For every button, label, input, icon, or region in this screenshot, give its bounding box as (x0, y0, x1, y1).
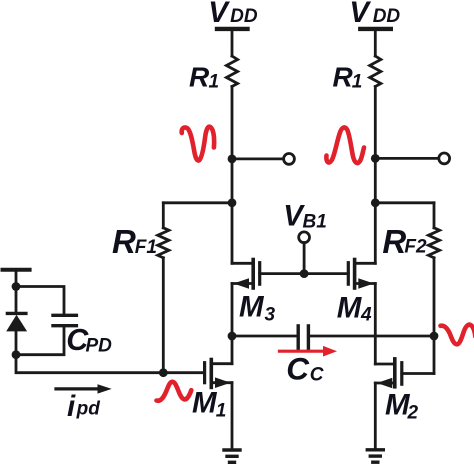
transistor M3 (232, 260, 260, 289)
wire CPD top branch (16, 287, 64, 316)
label M4 (337, 291, 372, 325)
photodiode D (6, 313, 27, 331)
capacitor CPD (53, 315, 76, 325)
wire gate rail M3-M4 (260, 272, 349, 275)
svg-text:R: R (382, 223, 406, 260)
VDD supply bar right (360, 27, 391, 31)
wire RF1 tap down to M3 drain (231, 203, 234, 263)
wire VB1 to gate rail (303, 243, 306, 274)
svg-text:F2: F2 (404, 237, 427, 258)
red sinusoid M1 gate (157, 382, 192, 401)
node dot A (228, 332, 237, 341)
photodiode supply bar (3, 268, 30, 272)
red current arrow CC (280, 346, 338, 357)
node dot input (159, 368, 168, 377)
wire CC to node B (310, 335, 434, 338)
wire output stub right (375, 157, 439, 160)
wire M1 source to ground (231, 383, 234, 450)
resistor R1 right (370, 56, 381, 87)
wire output stub left (232, 157, 284, 160)
svg-text:2: 2 (407, 403, 419, 424)
svg-text:M: M (239, 290, 265, 323)
wire output node to RF1 tap left (231, 159, 234, 203)
label CPD (66, 323, 112, 357)
resistor RF1 (158, 228, 169, 258)
node dot PD top (12, 282, 21, 291)
svg-text:R: R (189, 62, 210, 93)
svg-text:V: V (208, 0, 230, 29)
terminal circle right output (439, 153, 450, 164)
node dot VB1 gate (300, 269, 309, 278)
wire RF2 lower lead to node B (433, 258, 436, 336)
red sinusoid left output (182, 127, 214, 161)
node dot RF2 tap (371, 198, 380, 207)
svg-text:C: C (286, 350, 310, 386)
wire VDD to R1 left (231, 29, 234, 56)
svg-text:PD: PD (86, 335, 113, 356)
label VDD right (349, 0, 400, 29)
current arrow ipd (56, 384, 112, 393)
svg-text:M: M (192, 386, 218, 419)
node dot B (430, 332, 439, 341)
label R1 left (189, 62, 219, 93)
ground under M1 (224, 450, 240, 462)
resistor RF2 (428, 228, 439, 258)
label RF1 (112, 223, 157, 260)
label CC (286, 350, 324, 386)
node A down to M1 drain (231, 336, 234, 364)
wire PD top node to diode (15, 287, 18, 314)
label VDD left (208, 0, 258, 29)
wire R1 to output node left (231, 87, 234, 159)
svg-text:DD: DD (230, 6, 258, 27)
svg-text:M: M (337, 291, 363, 324)
wire output node to RF2 tap (374, 158, 377, 202)
wire CPD bottom branch (16, 326, 64, 355)
label RF2 (382, 223, 427, 260)
svg-text:1: 1 (216, 401, 227, 422)
wire supply to PD top node (15, 270, 18, 287)
terminal circle VB1 (299, 232, 310, 243)
ground under M2 (367, 450, 383, 462)
svg-text:DD: DD (373, 6, 401, 27)
wire R1 to output node right (374, 87, 377, 159)
transistor M1 (163, 360, 232, 389)
svg-text:i: i (67, 390, 76, 423)
red sinusoid node B (441, 325, 474, 345)
VDD supply bar left (217, 27, 248, 31)
node dot PD bottom (12, 350, 21, 359)
svg-text:C: C (310, 365, 324, 386)
wire PD bottom to input node (16, 355, 163, 373)
node dot RF1 tap (228, 198, 237, 207)
svg-text:pd: pd (76, 399, 101, 420)
wire to RF2 top (375, 201, 434, 204)
wire RF1 upper lead (162, 203, 165, 228)
svg-text:V: V (349, 0, 371, 29)
wire diode to PD bottom node (15, 331, 18, 354)
node dot left output (228, 155, 237, 164)
transistor M2 (375, 336, 434, 388)
node dot right output (371, 154, 380, 163)
label VB1 (283, 200, 326, 233)
svg-text:R: R (112, 223, 136, 260)
terminal circle left output (284, 154, 295, 165)
resistor R1 left (226, 56, 237, 87)
wire RF2 upper lead (433, 203, 436, 228)
svg-text:1: 1 (209, 71, 220, 92)
wire RF2 tap down to M4 drain (374, 203, 377, 263)
wire VDD to R1 right (374, 29, 377, 56)
wire node A to CC (232, 335, 297, 338)
wire M3 source down to node A (231, 284, 234, 337)
svg-text:B1: B1 (303, 212, 327, 233)
label R1 right (333, 62, 363, 93)
wire to RF1 top (163, 201, 232, 204)
svg-text:4: 4 (360, 304, 372, 325)
wire RF1 lower lead to input node (162, 258, 165, 373)
wire M4 source down to M2 drain (374, 284, 377, 365)
transistor M4 (348, 260, 375, 289)
wire M2 source to ground (374, 383, 377, 450)
svg-text:3: 3 (265, 305, 276, 326)
svg-text:R: R (333, 62, 354, 93)
red sinusoid right output (326, 127, 364, 163)
capacitor CC (298, 326, 308, 349)
svg-text:F1: F1 (135, 237, 157, 258)
label M1 (192, 386, 226, 421)
svg-text:1: 1 (352, 71, 363, 92)
label ipd (67, 390, 100, 423)
label M3 (239, 290, 276, 325)
label M2 (385, 388, 419, 423)
